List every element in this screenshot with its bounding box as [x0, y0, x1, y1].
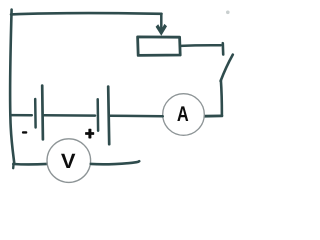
- voltmeter V: [47, 139, 91, 183]
- wire battery to ammeter: [110, 114, 163, 117]
- rheostat R: [138, 37, 181, 56]
- switch blade (open): [221, 55, 233, 81]
- label plus: [85, 129, 94, 139]
- wire between cells: [44, 114, 95, 117]
- wire top horizontal: [11, 13, 162, 14]
- wire voltmeter right (dangling): [91, 161, 139, 164]
- battery cell 2 (short plate, long plate): [98, 87, 110, 145]
- stray ink dot: [226, 11, 230, 15]
- wire left vertical: [10, 10, 14, 164]
- ammeter A: [163, 94, 205, 136]
- battery cell 1 (short plate, long plate): [35, 86, 43, 140]
- rheostat slider arrow: [156, 14, 167, 36]
- switch top contact: [222, 43, 225, 54]
- label minus: [22, 131, 27, 133]
- wire bottom left to voltmeter: [13, 164, 47, 169]
- wire right vertical: [205, 81, 222, 117]
- wire left rail to battery: [11, 114, 32, 117]
- wire rheostat to switch: [181, 44, 221, 47]
